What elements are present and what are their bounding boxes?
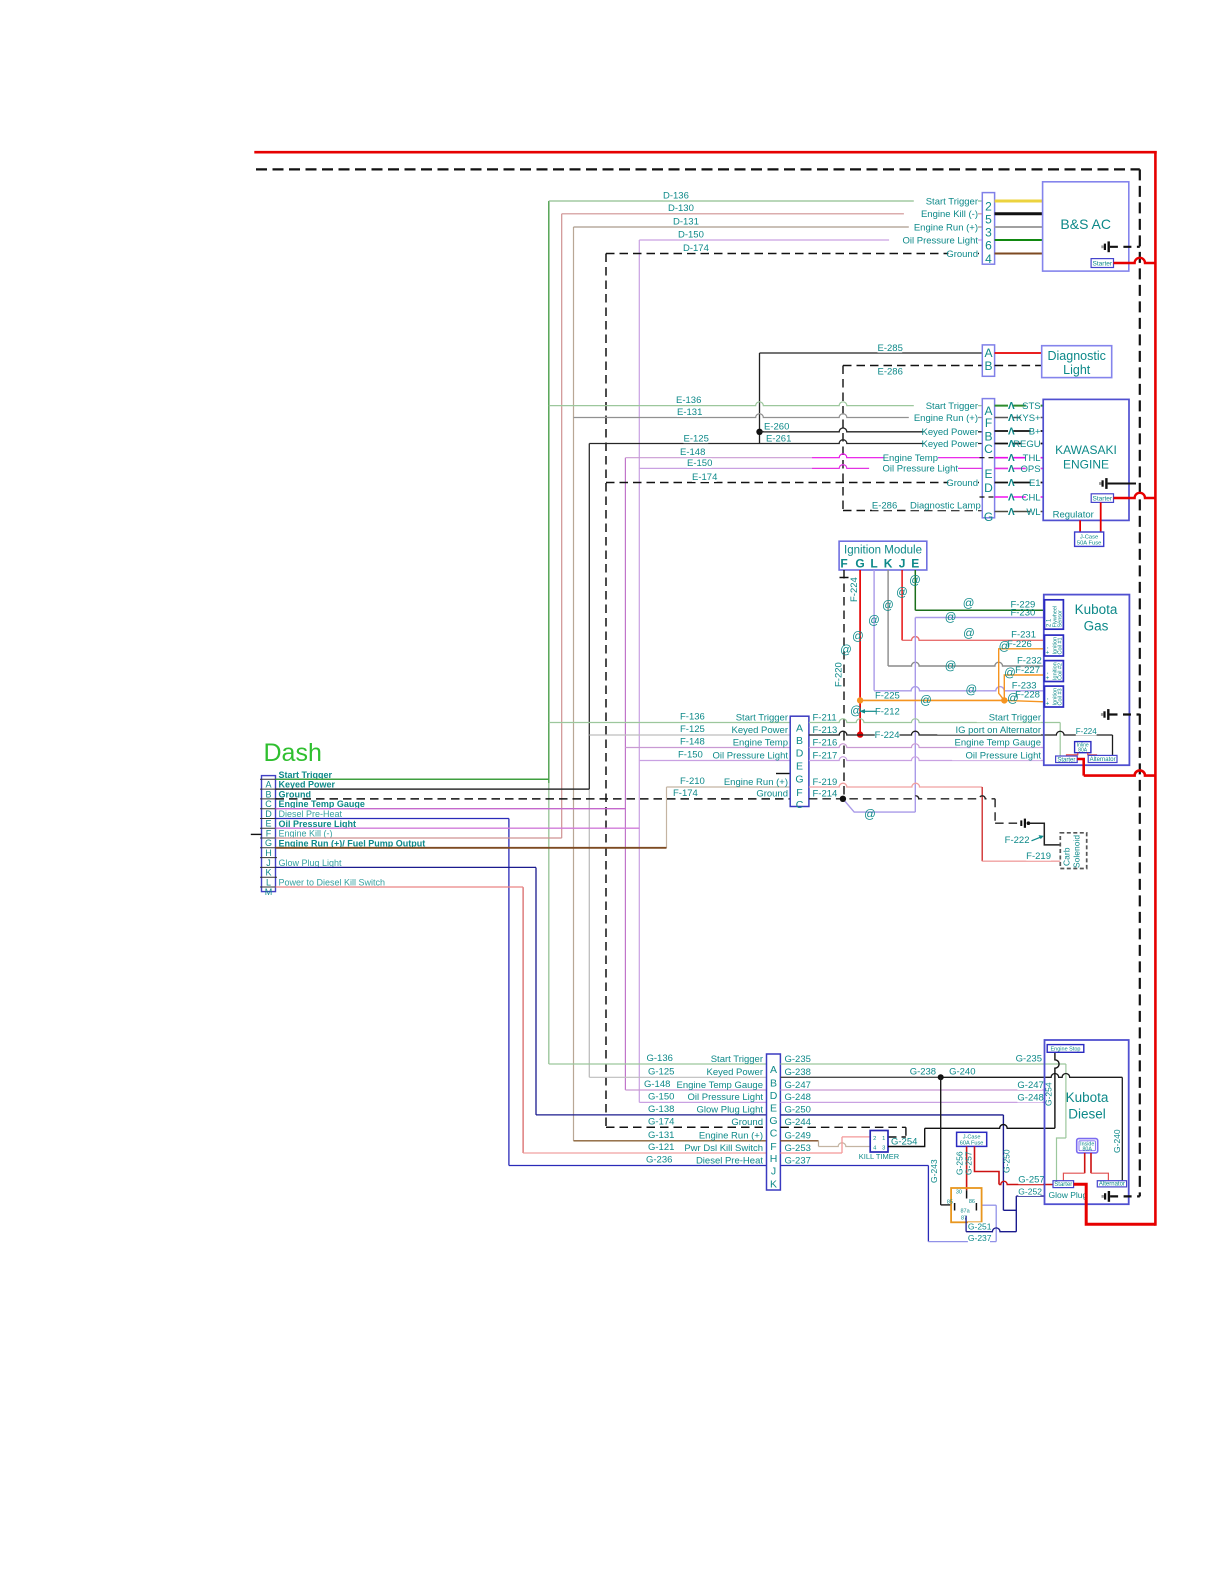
svg-text:Diesel: Diesel	[1068, 1107, 1106, 1122]
wire G-244 ground dashed	[780, 1126, 906, 1128]
wire carb solenoid ground (black)	[1030, 823, 1061, 845]
svg-text:Ground: Ground	[946, 478, 978, 489]
svg-text:@: @	[963, 598, 975, 610]
svg-text:J: J	[266, 858, 271, 868]
wire start-trigger riser (green)	[548, 201, 550, 783]
wire diesel-kill-power riser (red)	[522, 887, 524, 1153]
svg-text:D-131: D-131	[673, 216, 699, 227]
wire E-136 start trigger	[549, 402, 983, 406]
svg-text:+ -: + -	[1046, 672, 1052, 679]
svg-text:G: G	[265, 838, 272, 848]
label G-236	[646, 1155, 671, 1165]
wire Dash-G engine kill (rose)	[276, 837, 562, 839]
svg-text:86: 86	[969, 1199, 975, 1205]
wire E-260 keyed power	[760, 428, 983, 432]
wire ground bus (right dashed vertical)	[1139, 169, 1141, 1196]
svg-text:Ground: Ground	[756, 789, 788, 800]
wire Dash-B keyed power (black)	[276, 788, 590, 790]
svg-text:F-219: F-219	[813, 777, 838, 788]
svg-text:M: M	[265, 887, 273, 897]
label F-219 at carb solenoid	[1026, 851, 1051, 861]
svg-text:IG port on Alternator: IG port on Alternator	[955, 725, 1041, 736]
label D-130	[668, 203, 693, 213]
box J-Case 60A Fuse (diesel)	[957, 1132, 987, 1146]
wire G-257 red fuse to starter	[975, 1146, 1000, 1184]
svg-text:Power to Diesel Kill Switch: Power to Diesel Kill Switch	[279, 878, 386, 888]
svg-text:Starter: Starter	[1093, 260, 1113, 267]
svg-text:F-210: F-210	[680, 776, 705, 787]
svg-text:K: K	[770, 1179, 777, 1191]
svg-text:Start Trigger: Start Trigger	[926, 401, 978, 412]
svg-text:F-216: F-216	[813, 737, 838, 748]
svg-text:D: D	[796, 748, 804, 760]
svg-text:Engine Run (+): Engine Run (+)	[914, 413, 978, 424]
svg-text:STS: STS	[1022, 401, 1040, 412]
svg-text:F-226: F-226	[1007, 639, 1032, 650]
svg-text:WL: WL	[1026, 507, 1040, 518]
svg-text:G-253: G-253	[785, 1143, 811, 1154]
connector Kawasaki engine strip	[982, 399, 994, 518]
svg-text:E-261: E-261	[766, 433, 791, 444]
svg-text:30: 30	[956, 1190, 962, 1196]
svg-text:Ignition Module: Ignition Module	[844, 545, 922, 557]
wire G-237 periwinkle to relay 86	[928, 1241, 996, 1243]
svg-text:Start Trigger: Start Trigger	[926, 196, 978, 207]
svg-text:G-250: G-250	[1002, 1149, 1012, 1173]
box B&S AC	[1043, 182, 1129, 271]
box Kubota Diesel Starter	[1053, 1181, 1074, 1188]
svg-text:Ground: Ground	[279, 789, 312, 799]
label G-174	[648, 1117, 673, 1127]
box Flywheel Sensor	[1045, 600, 1064, 629]
wire E-174 ground (dashed)	[606, 482, 982, 484]
wire G-251 relay 87 to glow plug	[965, 1216, 967, 1232]
label Kawasaki Start Trigger	[914, 401, 978, 411]
tick Kawasaki gap CHL	[980, 496, 998, 498]
svg-text:G-174: G-174	[648, 1116, 674, 1127]
svg-text:E-131: E-131	[677, 407, 702, 418]
box small fuse (gas)	[1075, 742, 1091, 753]
wire G-250 glow plug	[780, 1114, 1003, 1116]
pin relay 86	[975, 1203, 977, 1211]
connector B&S AC (pins 2 5 3 6 4)	[982, 193, 994, 265]
label G-138	[648, 1104, 673, 1114]
pin relay 30	[966, 1190, 968, 1198]
wire Kawasaki pin KYS+	[995, 417, 1044, 419]
svg-text:F: F	[770, 1141, 776, 1153]
svg-text:E: E	[984, 467, 992, 481]
wire G-131 engine run	[574, 1140, 767, 1142]
svg-text:F-174: F-174	[673, 788, 698, 799]
svg-text:G-257: G-257	[1018, 1174, 1044, 1185]
svg-text:Keyed Power: Keyed Power	[921, 427, 978, 438]
label Kawasaki Ground	[948, 478, 978, 488]
svg-text:@: @	[868, 615, 880, 627]
label F-210	[680, 776, 705, 786]
junction orange at coils	[1001, 697, 1007, 703]
svg-text:G-125: G-125	[648, 1066, 674, 1077]
svg-text:THL: THL	[1023, 453, 1041, 464]
label B&S Start Trigger	[914, 197, 978, 207]
wire E-131 engine run	[574, 414, 983, 418]
svg-text:C: C	[984, 442, 993, 456]
svg-text:@: @	[963, 628, 975, 640]
svg-text:Ground: Ground	[731, 1117, 763, 1128]
wire G-148 engine temp	[625, 1089, 766, 1091]
svg-text:G-251: G-251	[968, 1221, 992, 1231]
svg-text:Starter: Starter	[1057, 757, 1075, 763]
svg-text:Dash: Dash	[264, 739, 322, 767]
svg-text:E: E	[770, 1103, 777, 1115]
wire B&S pin4 (brown)	[995, 253, 1043, 255]
svg-text:G-238: G-238	[785, 1067, 811, 1078]
wire G-136 start trigger	[549, 1063, 767, 1065]
wire glow-plug riser (navy)	[535, 868, 537, 1115]
wire F-148 engine temp	[625, 747, 790, 749]
wire G-256 red fuse to relay 30	[966, 1146, 968, 1190]
svg-text:Starter: Starter	[1093, 496, 1113, 503]
svg-text:J-Case: J-Case	[1080, 535, 1098, 541]
svg-text:B&S AC: B&S AC	[1060, 216, 1111, 232]
label D-150	[678, 230, 703, 240]
svg-text:K: K	[265, 868, 271, 878]
svg-text:Start Trigger: Start Trigger	[711, 1054, 763, 1065]
svg-text:D-130: D-130	[668, 203, 694, 214]
label F-148	[680, 737, 705, 747]
wire E-286 dashed loop	[843, 365, 982, 367]
wire F-226 orange to coil1+	[999, 649, 1045, 701]
svg-text:Coil #2: Coil #2	[1058, 663, 1064, 680]
label G-121	[648, 1142, 673, 1152]
svg-text:G-243: G-243	[929, 1159, 939, 1183]
label G-248 near box	[1017, 1093, 1042, 1103]
svg-text:G-257: G-257	[963, 1151, 973, 1175]
svg-text:G-249: G-249	[785, 1131, 811, 1142]
svg-text:@: @	[909, 575, 921, 587]
svg-text:G-252: G-252	[1018, 1186, 1042, 1196]
label Kawasaki pin THL	[1008, 453, 1013, 463]
svg-text:50A Fuse: 50A Fuse	[1077, 541, 1102, 547]
svg-text:Λ: Λ	[1008, 507, 1015, 518]
label F-125	[680, 724, 705, 734]
svg-text:F-224: F-224	[875, 730, 900, 741]
svg-text:Λ: Λ	[1008, 493, 1015, 504]
wire Dash-K glow plug (navy)	[276, 866, 537, 868]
svg-text:F: F	[266, 829, 272, 839]
wire diesel-preheat riser (blue)	[508, 819, 510, 1166]
svg-text:Carb: Carb	[1062, 847, 1072, 866]
wire battery + red bus (right vertical)	[1154, 151, 1157, 1226]
svg-text:G-235: G-235	[785, 1054, 811, 1065]
svg-text:F: F	[840, 557, 847, 571]
label Kawasaki Keyed Power	[924, 427, 978, 437]
wire G-253 kill switch (pink)	[780, 1152, 842, 1154]
wire D-131 engine run	[574, 226, 983, 228]
svg-text:6: 6	[985, 239, 992, 253]
pin Dash-F	[260, 827, 277, 829]
label B&S Ground	[948, 249, 978, 259]
svg-text:Regulator: Regulator	[1053, 509, 1094, 520]
wire G-150 oil pressure	[639, 1101, 766, 1103]
wire engine-run riser (tan)	[573, 227, 575, 1141]
svg-text:1: 1	[882, 1136, 885, 1142]
svg-text:Starter: Starter	[1054, 1182, 1072, 1188]
wire F-228 orange to coil3+	[1004, 700, 1044, 701]
wire F-150 oil pressure	[639, 760, 790, 762]
wire B&S pin3 (gray)	[995, 226, 1043, 228]
label G-238 mid	[910, 1067, 935, 1077]
label G-247 near box	[1017, 1080, 1042, 1090]
svg-text:A: A	[265, 780, 271, 790]
svg-text:G-235: G-235	[1016, 1053, 1042, 1064]
label Kawasaki Keyed Power	[924, 439, 978, 449]
wire F-213 keyed power / F-224	[809, 731, 1113, 735]
box Ignition Coil #1	[1045, 635, 1064, 656]
svg-text:Engine Run (+): Engine Run (+)	[699, 1131, 763, 1142]
wire E-125 keyed power / E-261	[589, 440, 982, 444]
svg-text:2: 2	[873, 1136, 876, 1142]
label F-222 with arrow	[1005, 835, 1030, 845]
svg-text:F-228: F-228	[1015, 689, 1040, 700]
label E-148	[680, 447, 705, 457]
wire gas ground drop (dashed)	[994, 799, 996, 823]
svg-text:F-125: F-125	[680, 724, 705, 735]
svg-text:Keyed Power: Keyed Power	[706, 1067, 763, 1078]
svg-text:Alternator: Alternator	[1090, 757, 1116, 763]
wire F-233 lavender from pin L	[873, 570, 875, 691]
label G-237 bottom	[968, 1234, 990, 1243]
svg-text:Diagnostic Lamp: Diagnostic Lamp	[910, 500, 981, 511]
label Kawasaki pin B+	[1008, 426, 1013, 436]
wire Kawasaki pin CHL	[995, 496, 1044, 498]
ground symbol inline (gas)	[1020, 820, 1022, 826]
label E-174	[692, 472, 717, 482]
svg-text:C: C	[265, 799, 272, 809]
svg-text:Oil Pressure Light: Oil Pressure Light	[965, 750, 1041, 761]
label G-150	[648, 1092, 673, 1102]
svg-text:KAWASAKI: KAWASAKI	[1055, 443, 1117, 457]
svg-text:Engine Run (+): Engine Run (+)	[724, 777, 788, 788]
label D-131	[673, 217, 698, 227]
svg-text:F-224: F-224	[849, 577, 860, 602]
wire Dash-E diesel pre-heat (blue)	[276, 818, 509, 820]
svg-text:Coil #3: Coil #3	[1058, 688, 1064, 705]
svg-text:Diesel Pre-Heat: Diesel Pre-Heat	[696, 1155, 763, 1166]
wire F-211 start trigger	[809, 719, 1060, 723]
wire D-136 start trigger	[549, 200, 983, 202]
label E-260	[764, 422, 789, 432]
stub F connector pin G	[776, 773, 790, 775]
svg-text:Engine Kill (-): Engine Kill (-)	[921, 209, 978, 220]
svg-text:D-136: D-136	[663, 190, 689, 201]
box Kubota Diesel Alternator	[1097, 1181, 1126, 1187]
wire F-230 lavender flywheel	[915, 617, 1044, 619]
svg-text:F-225: F-225	[875, 690, 900, 701]
wire Kawasaki starter to fuse (red)	[1100, 502, 1102, 532]
svg-text:F-214: F-214	[813, 789, 838, 800]
svg-text:F-222: F-222	[1005, 835, 1030, 846]
svg-text:Pwr Dsl Kill Switch: Pwr Dsl Kill Switch	[684, 1143, 763, 1154]
wire diesel starter to battery (thick red)	[1074, 1184, 1156, 1224]
svg-text:Oil Pressure Light: Oil Pressure Light	[882, 464, 958, 475]
wire diesel fuse to alternator (red)	[1090, 1153, 1092, 1173]
svg-text:G: G	[984, 510, 993, 524]
svg-text:CHL: CHL	[1022, 493, 1041, 504]
svg-text:E-286: E-286	[878, 366, 903, 377]
wire Kawasaki pin STS	[995, 405, 1044, 407]
label Kawasaki pin E1	[1008, 478, 1013, 488]
tick on F-220	[840, 577, 849, 579]
svg-text:E-125: E-125	[684, 433, 709, 444]
svg-text:L: L	[266, 877, 271, 887]
svg-text:G-150: G-150	[648, 1091, 674, 1102]
wire G-125 keyed power	[589, 1076, 766, 1078]
pin Dash-M	[260, 886, 277, 888]
ground symbol Kawasaki	[1099, 482, 1101, 485]
svg-text:F-227: F-227	[1015, 665, 1040, 676]
wire G-249 engine run	[780, 1140, 818, 1142]
box Ignition Module	[839, 541, 927, 570]
wire G-243 keyed to relay	[940, 1077, 942, 1205]
svg-text:G-250: G-250	[785, 1105, 811, 1116]
connector Diagnostic Light (pins A B)	[982, 345, 994, 376]
svg-text:@: @	[896, 587, 908, 599]
svg-text:L: L	[870, 557, 877, 571]
label gas Engine Temp Gauge	[957, 738, 1041, 748]
svg-text:+ -: + -	[1046, 698, 1052, 705]
svg-text:Engine Temp Gauge: Engine Temp Gauge	[955, 737, 1041, 748]
svg-text:J-Case: J-Case	[963, 1134, 981, 1140]
wire F-230 ground diagonal	[843, 799, 915, 812]
wire G-240 drop to alternator	[1121, 1077, 1123, 1180]
wire ground riser (dashed)	[605, 254, 607, 1128]
svg-text:E-260: E-260	[764, 421, 789, 432]
wire Dash-F oil pressure (magenta)	[276, 827, 640, 829]
svg-text:Keyed Power: Keyed Power	[731, 725, 788, 736]
pin Dash-J	[260, 857, 277, 859]
svg-text:Ground: Ground	[946, 249, 978, 260]
svg-text:F: F	[796, 787, 802, 799]
wire F-231 red from pin J	[901, 570, 903, 640]
label E-285	[878, 343, 903, 353]
pin Dash-K	[260, 866, 277, 868]
wire Kawasaki starter to battery (red)	[1114, 493, 1156, 498]
wire G-174 ground dashed	[606, 1126, 767, 1128]
box Engine Stop	[1047, 1045, 1084, 1053]
pin Dash-G	[260, 837, 277, 839]
wire B&S pin2 (yellow)	[995, 200, 1043, 203]
svg-text:Coil #1: Coil #1	[1058, 637, 1064, 654]
svg-text:G-131: G-131	[648, 1130, 674, 1141]
junction G-240	[938, 1074, 944, 1080]
wire D-130 engine kill	[562, 213, 983, 215]
svg-text:Oil Pressure Light: Oil Pressure Light	[712, 750, 788, 761]
svg-text:G-237: G-237	[968, 1233, 992, 1243]
box Carb Solenoid	[1060, 833, 1086, 869]
wire G-238 / G-240 keyed power	[780, 1076, 940, 1078]
svg-text:B: B	[796, 735, 803, 747]
svg-text:D: D	[770, 1090, 778, 1102]
wire G-236 diesel pre-heat	[509, 1165, 767, 1167]
pin Dash-D	[260, 808, 277, 810]
svg-text:G: G	[769, 1115, 777, 1127]
svg-text:E-285: E-285	[878, 343, 903, 354]
svg-text:Λ: Λ	[1008, 464, 1015, 475]
svg-text:Start Trigger: Start Trigger	[989, 712, 1041, 723]
svg-text:G-238: G-238	[910, 1066, 936, 1077]
box KILL TIMER	[870, 1131, 888, 1153]
svg-text:A: A	[770, 1064, 777, 1076]
wire F-214 ground (dashed)	[809, 796, 995, 799]
arrow F-212	[863, 710, 876, 712]
junction orange at G riser	[857, 697, 863, 703]
wire Dash-A start trigger (green)	[276, 778, 549, 780]
svg-text:Diagnostic: Diagnostic	[1048, 349, 1106, 363]
svg-text:F-212: F-212	[875, 707, 900, 718]
label Kawasaki pin STS	[1008, 401, 1013, 411]
pin Dash-H	[260, 847, 277, 849]
wire Kawasaki pin E1	[995, 482, 1044, 484]
svg-text:F-217: F-217	[813, 750, 838, 761]
label F-224 small	[1076, 727, 1097, 735]
label Kawasaki Oil Pressure Light	[869, 464, 958, 474]
box Kubota Gas Starter	[1056, 756, 1078, 763]
svg-text:4: 4	[985, 252, 992, 266]
label Regulator	[1049, 510, 1094, 520]
wire D-150 oil pressure	[639, 239, 982, 241]
wire F-224 red from pin G	[859, 570, 861, 735]
wire D-174 ground (dashed)	[606, 253, 982, 255]
svg-text:85: 85	[947, 1200, 953, 1206]
label gas IG port on Alternator	[937, 725, 1041, 735]
svg-text:F: F	[985, 416, 992, 430]
svg-text:Kubota: Kubota	[1066, 1090, 1109, 1105]
label Kawasaki pin KYS+	[1008, 413, 1013, 423]
svg-text:G-136: G-136	[647, 1053, 673, 1064]
svg-text:G-247: G-247	[785, 1080, 811, 1091]
svg-text:G-248: G-248	[1017, 1092, 1043, 1103]
wire Dash-C ground (dashed) to F connector	[276, 798, 791, 800]
svg-text:Solenoid: Solenoid	[1072, 835, 1082, 868]
junction E-260	[756, 429, 762, 435]
svg-text:E: E	[796, 761, 803, 773]
svg-text:G-247: G-247	[1017, 1080, 1043, 1091]
tick left of Dash connector	[251, 833, 262, 835]
svg-text:@: @	[882, 600, 894, 612]
svg-text:F-219: F-219	[1026, 851, 1051, 862]
ground symbol B&S	[1101, 245, 1103, 248]
svg-text:Oil Pressure Light: Oil Pressure Light	[279, 819, 357, 829]
wire ground bus (top dashed horizontal)	[256, 168, 1140, 170]
tick Kawasaki gap THL	[980, 457, 998, 459]
svg-text:F-220: F-220	[834, 662, 845, 687]
svg-text:E1: E1	[1029, 478, 1041, 489]
pin Dash-L	[260, 876, 277, 878]
svg-text:F-148: F-148	[680, 736, 705, 747]
svg-text:@: @	[966, 685, 978, 697]
wire engine-run branch riser (tan stub)	[666, 787, 668, 848]
svg-text:Alternator: Alternator	[1099, 1182, 1125, 1188]
svg-text:+ -: + -	[1046, 647, 1052, 654]
label F-224 mid	[875, 730, 900, 740]
wire Dash-H engine run (brown)	[276, 847, 667, 849]
wire diesel fuse to starter (red)	[1084, 1153, 1086, 1173]
label F-150	[678, 750, 703, 760]
svg-text:Λ: Λ	[1008, 427, 1015, 438]
svg-text:F-211: F-211	[813, 712, 837, 723]
svg-text:J: J	[899, 557, 906, 571]
svg-text:G-121: G-121	[648, 1142, 674, 1153]
